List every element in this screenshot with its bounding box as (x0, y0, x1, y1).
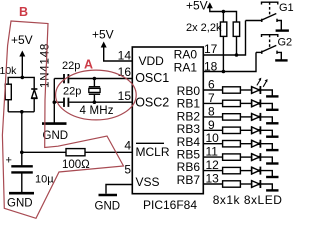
row pin 13 (203, 172, 278, 191)
row pin 6: wire, resistor, LED1, ground (203, 78, 278, 97)
resistor R4 2,2k (233, 22, 239, 36)
annotation ellipse A (56, 70, 137, 120)
svg-text:+5V: +5V (11, 33, 33, 47)
row pin 10 (203, 131, 278, 150)
row pin 7 (203, 91, 278, 110)
svg-text:GND: GND (95, 201, 121, 213)
svg-text:G1: G1 (279, 2, 294, 14)
button G2 (256, 35, 281, 60)
wire VSS to ground (106, 185, 132, 194)
LED emission arrows (LED1) (257, 78, 268, 87)
svg-text:22p: 22p (62, 60, 80, 72)
ground GND (VSS) (99, 194, 118, 197)
wire RA0 pin17 net (203, 21, 245, 56)
wire OSC1 (69, 78, 132, 80)
svg-text:15: 15 (118, 89, 132, 103)
svg-text:MCLR: MCLR (136, 145, 170, 159)
wire +5V left arrow stem (21, 54, 23, 77)
node pullup supply junction (222, 10, 226, 14)
node top junction (21, 76, 25, 80)
capacitor C1 22p (54, 78, 63, 80)
svg-text:14: 14 (118, 49, 132, 63)
wire +5V top right arrow (210, 6, 237, 22)
IC U1 PIC16F84 body (132, 47, 203, 194)
svg-text:22p: 22p (63, 86, 81, 98)
svg-text:17: 17 (204, 42, 218, 56)
svg-text:OSC1: OSC1 (135, 71, 169, 85)
wire MCLR net (22, 151, 66, 153)
svg-text:PIC16F84: PIC16F84 (143, 198, 197, 212)
node pin17-pullup junction (235, 53, 239, 57)
svg-text:5: 5 (124, 163, 131, 177)
+5V arrowhead (VDD) (101, 42, 107, 48)
wire down to MCLR junction (21, 112, 23, 153)
resistor R1 10k (5, 84, 11, 100)
crystal X1 4 MHz (93, 79, 95, 87)
button G1 (246, 2, 282, 30)
svg-text:10k: 10k (0, 65, 17, 77)
node bottom junction (20, 110, 24, 114)
diode D1 1N4148 (31, 88, 37, 90)
row pin 9 (203, 118, 278, 137)
svg-text:GND: GND (43, 130, 69, 142)
capacitor C3 10µ electrolytic (21, 152, 23, 165)
wire top junction row (8, 77, 34, 88)
row pin 11 (203, 145, 278, 164)
resistor R3 2,2k (220, 22, 226, 36)
node caps-OSC2 junction (53, 100, 57, 104)
node crystal-OSC2 junction (93, 100, 97, 104)
svg-text:2x 2,2k: 2x 2,2k (186, 22, 222, 34)
wire right pullup bottom lead (236, 36, 238, 55)
wire left pullup bottom lead (222, 36, 224, 71)
capacitor C2 22p (54, 101, 63, 103)
svg-text:+5V: +5V (92, 28, 114, 42)
LED rows pins 6-13 (203, 78, 282, 208)
ground GND (caps) (42, 122, 67, 125)
svg-text:RA0: RA0 (174, 48, 198, 62)
ground GND (G1) (276, 29, 289, 31)
row pin 8 (203, 104, 278, 123)
svg-text:VDD: VDD (139, 54, 165, 68)
svg-text:4: 4 (124, 139, 131, 153)
node pin18-pullup junction (222, 70, 226, 74)
+5V arrowhead (top right) (207, 2, 213, 8)
wire left pullup top lead (222, 12, 224, 23)
wire bottom junction row (8, 111, 34, 113)
svg-text:GND: GND (7, 198, 33, 210)
wire caps common to ground (53, 79, 55, 123)
ground GND (G2) (275, 59, 287, 61)
svg-text:+5V: +5V (186, 0, 208, 13)
svg-text:VSS: VSS (136, 175, 160, 189)
svg-text:B: B (19, 5, 28, 19)
svg-text:8x1k 8xLED: 8x1k 8xLED (213, 193, 283, 207)
ground GND (left bottom) (9, 192, 34, 195)
node crystal-OSC1 junction (93, 77, 97, 81)
wire VDD +5V stem (104, 45, 133, 61)
svg-text:18: 18 (204, 60, 218, 74)
svg-text:OSC2: OSC2 (135, 95, 169, 109)
row pin 12 (203, 158, 278, 177)
svg-text:G2: G2 (278, 37, 293, 49)
svg-text:RB7: RB7 (177, 173, 201, 187)
svg-text:4 MHz: 4 MHz (80, 105, 114, 117)
red annotation group (2, 5, 136, 218)
wire OSC2 (69, 101, 132, 103)
wire resistor bottom lead (7, 100, 9, 112)
+5V arrowhead (left) (19, 51, 25, 57)
svg-text:RA1: RA1 (174, 61, 198, 75)
node MCLR junction (20, 151, 24, 155)
annotation outline B (2, 21, 123, 218)
wire RA1 pin18 net (203, 52, 256, 71)
resistor R2 100Ω (66, 149, 85, 156)
svg-text:+: + (6, 155, 12, 167)
svg-text:10µ: 10µ (35, 174, 54, 186)
svg-text:A: A (84, 58, 93, 72)
